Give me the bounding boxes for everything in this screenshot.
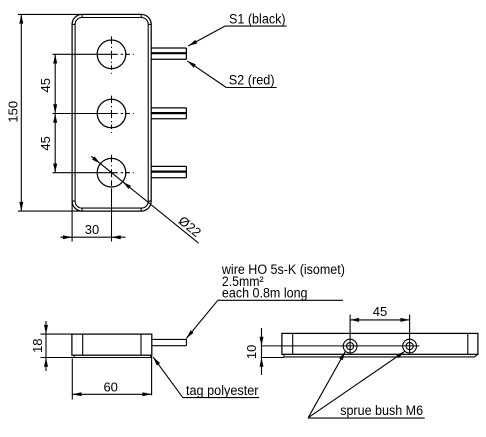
fillet tangent tick top-right <box>141 14 151 24</box>
seam line through sprue bushes <box>261 345 420 347</box>
fillet tangent tick bottom-left <box>72 201 82 211</box>
dimension 150 <box>18 14 82 211</box>
svg-text:30: 30 <box>85 222 99 237</box>
svg-text:60: 60 <box>103 380 117 395</box>
polyester tag under side view <box>41 355 151 357</box>
side view corner tangent lines <box>82 334 84 355</box>
centerline hole 2 <box>53 96 134 133</box>
leader tag polyester <box>153 357 259 398</box>
leader S1 <box>188 26 286 46</box>
svg-text:10: 10 <box>244 345 259 359</box>
svg-text:tag polyester: tag polyester <box>186 383 259 398</box>
fillet tangent tick bottom-right <box>141 201 151 211</box>
svg-text:45: 45 <box>38 78 53 92</box>
centerline hole 1 <box>53 36 134 73</box>
terminal tab 3 <box>151 166 186 177</box>
body outline top view (outer) <box>72 14 151 211</box>
dimension 18 <box>41 321 72 371</box>
extension line 10 bottom <box>261 357 284 359</box>
dimension 45 top pair <box>54 54 56 172</box>
svg-text:each 0.8m long: each 0.8m long <box>222 286 308 301</box>
fillet tangent tick top-left <box>72 14 82 24</box>
terminal tab 1 <box>151 48 186 59</box>
hole circle 3 <box>97 158 126 187</box>
svg-text:45: 45 <box>38 136 53 150</box>
polyester tag under bottom view <box>284 354 478 357</box>
sprue bush 1 <box>343 315 357 354</box>
hole circle 2 <box>97 99 126 128</box>
leader S2 <box>187 61 276 88</box>
svg-text:18: 18 <box>30 338 45 352</box>
bottom view body (bottom-right) <box>282 333 478 354</box>
hole circle 1 <box>97 40 126 69</box>
leader sprue bush 2 <box>308 351 405 417</box>
bottom view corner tangent lines <box>292 333 294 354</box>
svg-text:45: 45 <box>373 304 387 319</box>
svg-text:S1 (black): S1 (black) <box>229 12 286 27</box>
terminal tab 2 <box>151 108 186 119</box>
dimension 10 <box>261 328 263 375</box>
side view body (bottom-left) <box>72 334 152 355</box>
leader diameter 22 <box>91 156 198 243</box>
leader wire label <box>186 300 343 338</box>
svg-text:150: 150 <box>6 101 21 123</box>
dimension 30 <box>61 201 126 242</box>
dimension 60 <box>72 356 151 400</box>
svg-text:sprue bush M6: sprue bush M6 <box>340 403 423 418</box>
dimension 45 bottom view <box>350 319 410 321</box>
wire stub <box>152 339 187 345</box>
svg-text:S2 (red): S2 (red) <box>229 72 275 87</box>
body outline top view (inner contour) <box>75 18 148 209</box>
underline sprue bush M6 <box>308 417 425 419</box>
leader sprue bush 1 <box>308 351 345 417</box>
sprue bush 2 <box>403 315 417 354</box>
centerline hole 3 <box>53 155 134 242</box>
